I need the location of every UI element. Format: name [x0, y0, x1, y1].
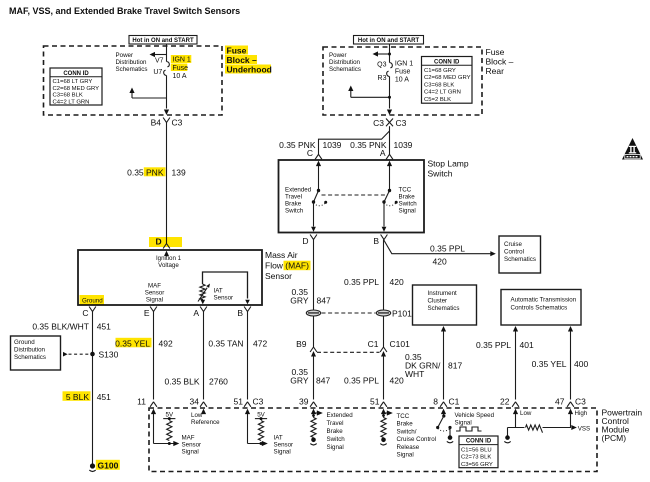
svg-text:C3: C3	[396, 118, 407, 128]
svg-text:Switch/: Switch/	[397, 428, 417, 435]
pull-up resistor R2 (IAT)	[258, 421, 263, 441]
wire TAN 472 (IAT signal)	[247, 312, 249, 400]
svg-text:A: A	[380, 148, 386, 158]
wire GRY 847 from stop lamp D	[313, 240, 315, 311]
svg-text:MAF: MAF	[148, 282, 161, 289]
connector table CONN ID (underhood)	[50, 68, 102, 105]
svg-text:S130: S130	[99, 350, 119, 360]
svg-text:Cruise Control: Cruise Control	[397, 436, 437, 443]
svg-text:Fuse: Fuse	[486, 47, 505, 57]
svg-text:C3: C3	[253, 396, 264, 406]
svg-text:10 A: 10 A	[173, 73, 187, 80]
dashed line P101	[322, 312, 376, 314]
PCM pin 47 connector C3	[567, 402, 574, 407]
wire pin 22 (low)	[515, 414, 517, 428]
svg-text:Brake: Brake	[399, 194, 416, 201]
svg-text:0.35 PPL: 0.35 PPL	[430, 243, 465, 253]
wire label 0.35 YEL 492 (highlighted)	[116, 338, 152, 348]
svg-text:Schematics: Schematics	[504, 256, 536, 263]
svg-text:Control: Control	[504, 249, 524, 256]
svg-text:Signal: Signal	[399, 208, 416, 215]
svg-text:Vehicle Speed: Vehicle Speed	[455, 412, 495, 419]
internal ground (pin 39)	[311, 438, 316, 443]
svg-text:1039: 1039	[323, 140, 342, 150]
svg-text:34: 34	[190, 396, 200, 406]
svg-text:C: C	[82, 308, 88, 318]
svg-text:Low: Low	[520, 410, 532, 417]
svg-text:R3: R3	[378, 75, 387, 82]
wire PPL 401 up to automatic transmission	[513, 326, 518, 332]
wire branch to cruise control schematics	[384, 240, 493, 254]
svg-text:C1=56 BLU: C1=56 BLU	[461, 447, 492, 453]
PCM pin 51 connector C3	[244, 402, 251, 407]
svg-text:0.35 PNK: 0.35 PNK	[127, 167, 164, 177]
svg-text:5 BLK: 5 BLK	[66, 392, 89, 402]
svg-text:A: A	[193, 308, 199, 318]
svg-text:IAT: IAT	[274, 435, 283, 442]
wire pin 51(C1) input	[384, 412, 390, 414]
splice S130	[90, 352, 95, 357]
svg-text:C2=68 MED GRY: C2=68 MED GRY	[53, 86, 100, 92]
svg-text:Stop Lamp: Stop Lamp	[428, 159, 469, 169]
hot in on and start label (right)	[354, 36, 424, 45]
svg-text:Brake: Brake	[285, 201, 302, 208]
svg-text:WHT: WHT	[405, 369, 424, 379]
svg-text:B: B	[237, 308, 243, 318]
PCM pin 34 connector	[200, 402, 207, 407]
svg-text:Release: Release	[397, 444, 420, 451]
fuse block rear dashed outline	[323, 47, 482, 115]
svg-text:Cruise: Cruise	[504, 241, 522, 248]
svg-text:Q3: Q3	[377, 61, 386, 68]
fuse F2 IGN 1 10A (rear)	[390, 63, 393, 68]
vehicle speed signal switch SW3	[443, 414, 445, 417]
powertrain control module dashed outline	[149, 408, 597, 472]
svg-text:C3: C3	[172, 118, 183, 128]
dashed reference arrow to splice	[63, 352, 68, 357]
arrow to power distribution (top left)	[153, 54, 167, 56]
svg-text:Ground: Ground	[14, 339, 35, 346]
connector C3 x C3 inline at rear fuse exit	[387, 110, 392, 116]
connector at pin B exit	[381, 235, 388, 240]
PCM pin 8 connector	[440, 402, 447, 407]
svg-text:IAT: IAT	[214, 288, 223, 295]
wire DK GRN/WHT 817 up to instrument cluster	[441, 326, 446, 332]
connector at MAF pin C exit	[89, 307, 96, 312]
svg-text:MAF: MAF	[182, 435, 195, 442]
svg-text:C4=2 LT GRN: C4=2 LT GRN	[424, 90, 461, 96]
connector table CONN ID (PCM)	[459, 436, 498, 468]
dashed mechanical link between switches	[322, 194, 387, 196]
svg-text:Ground: Ground	[82, 297, 103, 304]
svg-text:Brake: Brake	[327, 428, 344, 435]
svg-text:847: 847	[316, 375, 330, 385]
PCM pin 22 connector	[512, 402, 519, 407]
internal ground (pin 8 contact)	[449, 428, 451, 436]
svg-text:C101: C101	[390, 339, 411, 349]
junction node	[168, 442, 171, 445]
internal ground (low side)	[507, 428, 509, 436]
svg-text:Cluster: Cluster	[428, 298, 448, 305]
wire pin 47 (high)	[570, 414, 572, 428]
connector table CONN ID (rear)	[422, 57, 473, 104]
svg-text:VSS: VSS	[578, 425, 590, 432]
svg-text:Schematics: Schematics	[14, 354, 46, 361]
connector at pin D exit	[310, 235, 317, 240]
ground text (highlighted)	[80, 295, 105, 305]
svg-text:C: C	[307, 148, 313, 158]
svg-text:Sensor: Sensor	[214, 295, 234, 302]
svg-text:C1=68 LT GRY: C1=68 LT GRY	[53, 79, 93, 85]
wire PPL 420 from stop lamp B	[383, 240, 385, 311]
svg-text:Voltage: Voltage	[158, 262, 179, 269]
svg-text:420: 420	[390, 277, 404, 287]
svg-text:0.35 PPL: 0.35 PPL	[344, 277, 379, 287]
svg-text:Brake: Brake	[397, 421, 414, 428]
svg-text:B: B	[373, 236, 379, 246]
fuse block underhood name label (highlighted)	[225, 46, 248, 55]
svg-text:39: 39	[299, 396, 309, 406]
svg-text:V7: V7	[155, 58, 164, 65]
svg-text:Sensor: Sensor	[145, 289, 165, 296]
svg-text:472: 472	[253, 338, 267, 348]
svg-text:Power: Power	[116, 52, 134, 59]
svg-text:IGN 1: IGN 1	[395, 60, 413, 67]
pull-down resistor R3 (ext travel)	[311, 418, 316, 438]
svg-text:Switch: Switch	[285, 208, 304, 215]
svg-text:C1: C1	[449, 396, 460, 406]
svg-text:G100: G100	[98, 460, 119, 470]
svg-text:1039: 1039	[394, 140, 413, 150]
svg-text:Signal: Signal	[397, 452, 414, 459]
svg-text:U7: U7	[153, 69, 162, 76]
internal ground (pin 51 C1)	[381, 438, 386, 443]
svg-text:Distribution: Distribution	[14, 347, 46, 354]
svg-text:Automatic Transmission: Automatic Transmission	[511, 297, 577, 304]
svg-text:Signal: Signal	[182, 449, 199, 456]
wire label 5 BLK 451 (highlighted)	[63, 391, 91, 401]
svg-text:451: 451	[97, 392, 111, 402]
svg-text:Travel: Travel	[285, 194, 302, 201]
svg-text:51: 51	[370, 396, 380, 406]
svg-text:(PCM): (PCM)	[602, 433, 627, 443]
svg-text:8: 8	[433, 396, 438, 406]
svg-text:Distribution: Distribution	[329, 59, 361, 66]
svg-text:Ignition 1: Ignition 1	[156, 255, 182, 262]
svg-text:420: 420	[390, 375, 404, 385]
svg-text:CONN ID: CONN ID	[466, 439, 492, 445]
svg-text:139: 139	[172, 167, 186, 177]
svg-text:847: 847	[317, 295, 331, 305]
connector at MAF pin E exit	[150, 307, 157, 312]
svg-text:Schematics: Schematics	[329, 66, 361, 73]
svg-text:22: 22	[500, 396, 510, 406]
svg-text:CONN ID: CONN ID	[63, 71, 89, 77]
svg-text:420: 420	[433, 257, 447, 267]
wire YEL 492 (MAF signal)	[153, 312, 155, 400]
connector at pin C entry	[315, 154, 322, 159]
svg-text:Fuse: Fuse	[395, 69, 411, 76]
svg-text:Mass Air: Mass Air	[265, 250, 298, 260]
square wave symbol	[456, 427, 482, 431]
svg-text:D: D	[302, 236, 308, 246]
pass-through grommet P101 (left)	[306, 310, 320, 316]
svg-text:400: 400	[574, 359, 588, 369]
arrow to power distribution (top, rear block)	[376, 53, 390, 55]
svg-text:Hot in ON and START: Hot in ON and START	[132, 38, 194, 44]
fuse block underhood dashed outline	[44, 46, 223, 115]
svg-text:Schematics: Schematics	[116, 66, 148, 73]
VSS sense rail	[508, 427, 525, 429]
svg-text:0.35 BLK/WHT: 0.35 BLK/WHT	[32, 321, 89, 331]
svg-text:GRY: GRY	[290, 375, 309, 385]
svg-text:TCC: TCC	[397, 413, 410, 420]
svg-text:Sensor: Sensor	[274, 442, 294, 449]
triangle emissions logo	[622, 138, 643, 160]
svg-text:High: High	[575, 410, 588, 417]
IAT sensor thermistor RT1	[200, 284, 205, 300]
svg-text:Sensor: Sensor	[265, 271, 292, 281]
wire pin 11 to comparator	[153, 414, 155, 444]
wire PNK 139 to MAF sensor	[166, 123, 168, 244]
wire BLK/WHT 451	[92, 312, 94, 467]
inline connector C101 pin B9	[310, 347, 317, 352]
wire PPL below P101	[383, 316, 385, 347]
svg-text:51: 51	[234, 396, 244, 406]
svg-text:0.35 TAN: 0.35 TAN	[208, 338, 243, 348]
svg-text:Switch: Switch	[399, 201, 418, 208]
svg-text:C1=68 GRY: C1=68 GRY	[424, 68, 456, 74]
svg-text:11: 11	[137, 396, 146, 406]
svg-text:Controls Schematics: Controls Schematics	[511, 305, 568, 312]
svg-text:Flow (MAF): Flow (MAF)	[265, 261, 309, 271]
pass-through grommet P101 (right)	[376, 310, 390, 316]
fuse F1 IGN 1 10A (underhood)	[167, 62, 170, 67]
connector at MAF pin A exit	[200, 307, 207, 312]
wire YEL 400 up to automatic transmission	[568, 326, 573, 332]
svg-text:Block –: Block –	[227, 55, 258, 65]
svg-text:P101: P101	[392, 308, 412, 318]
hot in on and start label (left)	[129, 36, 197, 45]
svg-text:47: 47	[555, 396, 565, 406]
svg-text:C3=68 BLK: C3=68 BLK	[424, 82, 454, 88]
svg-text:C5=2 BLK: C5=2 BLK	[424, 97, 451, 103]
svg-text:0.35 PPL: 0.35 PPL	[476, 340, 511, 350]
branch wire to power distribution arrow (bottom)	[132, 97, 167, 99]
svg-text:C2=73 BLK: C2=73 BLK	[461, 455, 491, 461]
svg-text:Underhood: Underhood	[227, 64, 272, 74]
svg-text:Rear: Rear	[486, 66, 505, 76]
TCC brake switch SW2	[389, 166, 391, 191]
wire label 0.35 PNK 139 (PNK highlighted)	[144, 167, 166, 176]
svg-text:B9: B9	[296, 339, 307, 349]
wire pin 51(C3) to comparator	[247, 414, 249, 444]
PCM pin 51 connector C1	[380, 402, 387, 407]
svg-text:MAF, VSS, and Extended Brake T: MAF, VSS, and Extended Brake Travel Swit…	[9, 6, 240, 16]
svg-text:C3: C3	[373, 118, 384, 128]
junction node	[260, 442, 263, 445]
IAT wire to pin A	[202, 299, 204, 300]
svg-text:0.35 BLK: 0.35 BLK	[165, 376, 200, 386]
PCM pin 39 connector	[310, 402, 317, 407]
svg-text:Distribution: Distribution	[116, 59, 148, 66]
pull-down resistor R4 (TCC)	[381, 418, 386, 438]
svg-text:Extended: Extended	[327, 412, 354, 419]
svg-text:C2=68 MED GRY: C2=68 MED GRY	[424, 75, 471, 81]
svg-text:Hot in ON and START: Hot in ON and START	[358, 38, 420, 44]
fuse value label IGN 1 / Fuse / 10 A (highlighted)	[171, 55, 192, 63]
wire pin 39 input	[314, 412, 320, 414]
wire below rear fuse	[389, 77, 391, 109]
svg-text:C3=56 GRY: C3=56 GRY	[461, 462, 493, 468]
svg-text:D: D	[156, 237, 162, 247]
connector B4/C3 at fuse block exit	[164, 110, 169, 116]
sense resistor R5	[526, 425, 543, 433]
svg-text:Instrument: Instrument	[428, 290, 458, 297]
stop lamp switch box	[279, 160, 425, 233]
junction node at rear fuse feed	[388, 53, 391, 56]
dashed line C101	[317, 351, 380, 353]
svg-text:Extended: Extended	[285, 187, 312, 194]
instrument cluster schematics box	[413, 285, 477, 325]
svg-text:Power: Power	[329, 52, 347, 59]
connector at MAF pin B exit	[244, 307, 251, 312]
svg-text:0.35 YEL: 0.35 YEL	[115, 338, 150, 348]
svg-text:0.35 YEL: 0.35 YEL	[532, 359, 567, 369]
svg-text:Signal: Signal	[455, 420, 472, 427]
svg-text:492: 492	[159, 338, 173, 348]
svg-text:0.35 PPL: 0.35 PPL	[344, 375, 379, 385]
svg-text:817: 817	[448, 361, 462, 371]
wire from hot feed into fuse block	[166, 44, 168, 62]
IAT loop wire to pin B	[203, 272, 248, 299]
svg-text:Signal: Signal	[146, 296, 163, 303]
svg-text:Sensor: Sensor	[182, 442, 202, 449]
wire from hot feed into rear fuse block	[389, 44, 391, 63]
svg-text:401: 401	[520, 340, 534, 350]
wire below fuse	[166, 76, 168, 109]
wire PNK 1039 from rear fuse, A branch	[389, 126, 391, 154]
svg-text:C4=2 LT GRN: C4=2 LT GRN	[53, 99, 90, 105]
svg-text:C3=68 BLK: C3=68 BLK	[53, 93, 83, 99]
svg-text:IGN 1: IGN 1	[173, 57, 191, 64]
svg-text:E: E	[144, 308, 150, 318]
svg-text:Fuse: Fuse	[173, 65, 189, 72]
ground G100	[90, 463, 95, 468]
svg-text:Switch: Switch	[428, 169, 453, 179]
PCM pin 11 connector	[150, 402, 157, 407]
arrow to VSS	[571, 425, 577, 430]
branch wire to power distribution arrow (bottom, rear)	[351, 96, 390, 98]
svg-text:Switch: Switch	[327, 436, 346, 443]
svg-text:451: 451	[97, 321, 111, 331]
connector at pin A entry	[386, 154, 393, 159]
inline connector C101 pin C1	[380, 347, 387, 352]
svg-text:Travel: Travel	[327, 420, 344, 427]
wire BLK 2760 (low reference)	[203, 312, 205, 400]
svg-text:C1: C1	[368, 339, 379, 349]
svg-text:Signal: Signal	[274, 449, 291, 456]
svg-text:Schematics: Schematics	[428, 305, 460, 312]
pull-up resistor R1 (MAF)	[167, 421, 172, 441]
svg-text:Block –: Block –	[486, 57, 514, 67]
wire GRY 847 below P101	[313, 316, 315, 347]
svg-text:2760: 2760	[209, 376, 228, 386]
wire PNK 1039 jog to C branch	[319, 131, 390, 155]
svg-text:C3: C3	[575, 396, 586, 406]
svg-text:Reference: Reference	[191, 419, 220, 426]
MAF sensor box	[78, 250, 262, 305]
connector at MAF pin D entry	[163, 244, 170, 249]
svg-text:Fuse: Fuse	[227, 45, 247, 55]
automatic transmission controls schematics box	[501, 290, 581, 326]
svg-text:B4: B4	[151, 118, 162, 128]
cruise control schematics box	[499, 236, 541, 273]
ground distribution schematics box	[11, 336, 61, 370]
pin D label (highlighted)	[149, 237, 182, 247]
svg-text:Signal: Signal	[327, 444, 344, 451]
svg-text:10 A: 10 A	[395, 77, 409, 84]
svg-text:Low: Low	[191, 412, 203, 419]
extended travel brake switch SW1	[318, 166, 320, 191]
svg-text:TCC: TCC	[399, 187, 412, 194]
svg-text:CONN ID: CONN ID	[434, 59, 460, 65]
svg-text:GRY: GRY	[290, 295, 309, 305]
